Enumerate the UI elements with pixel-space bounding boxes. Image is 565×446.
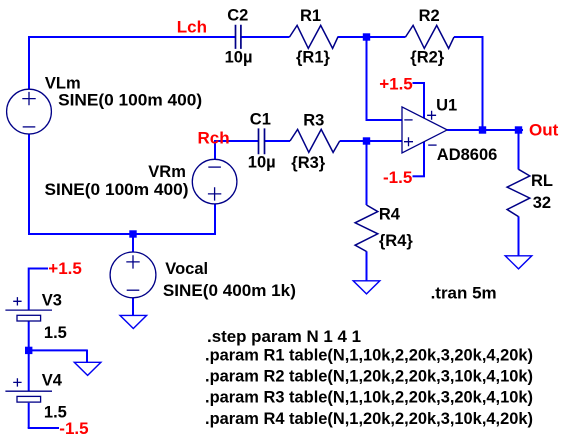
- svg-text:.tran 5m: .tran 5m: [431, 285, 497, 303]
- svg-text:R1: R1: [300, 7, 321, 25]
- svg-text:10µ: 10µ: [248, 154, 276, 172]
- svg-text:+1.5: +1.5: [48, 259, 82, 278]
- svg-text:-1.5: -1.5: [383, 168, 412, 187]
- node V3/V4 midpoint: [25, 347, 32, 354]
- wire R4 to ground: [366, 251, 368, 280]
- svg-text:Lch: Lch: [177, 18, 207, 37]
- resistor RL: [507, 169, 530, 216]
- svg-text:SINE(0 100m 400): SINE(0 100m 400): [58, 92, 202, 110]
- capacitor C2: [236, 25, 241, 49]
- op-amp noninverting input mark: [404, 137, 413, 146]
- battery V4 symbol: [5, 378, 52, 402]
- svg-text:.step param N 1 4 1: .step param N 1 4 1: [207, 328, 361, 346]
- svg-text:{R4}: {R4}: [379, 232, 414, 250]
- ground battery midpoint: [74, 362, 101, 375]
- svg-text:SINE(0 400m 1k): SINE(0 400m 1k): [163, 282, 296, 300]
- wire Out node down to RL: [518, 130, 520, 170]
- wire +1.5 battery flag link: [29, 268, 48, 270]
- wire RL to ground: [518, 216, 520, 255]
- wire R1 to R2 through node A: [338, 36, 406, 38]
- svg-text:R4: R4: [379, 205, 401, 223]
- op-amp inverting input mark: [404, 119, 412, 121]
- op-amp V+ mark: [427, 111, 436, 120]
- voltage source Vocal: [110, 252, 156, 298]
- wire Vocal top stub: [132, 234, 134, 252]
- svg-text:1.5: 1.5: [44, 324, 67, 342]
- wire C1 to R3: [265, 140, 291, 142]
- wire V4 top pin: [28, 350, 30, 391]
- wire Rch rail (VRm to C1): [214, 140, 259, 142]
- svg-text:V3: V3: [42, 291, 62, 309]
- svg-text:{R2}: {R2}: [410, 49, 445, 67]
- wire R2 to feedback corner: [454, 36, 483, 38]
- svg-text:RL: RL: [531, 172, 553, 190]
- wire VRm bottom stub: [214, 204, 216, 235]
- resistor R4: [355, 205, 378, 252]
- wire V4 bottom pin: [28, 403, 30, 428]
- svg-text:Out: Out: [529, 121, 559, 140]
- svg-text:AD8606: AD8606: [437, 146, 498, 164]
- wire op-amp V- pin: [423, 142, 425, 177]
- wire feedback vertical to output: [482, 36, 484, 130]
- wire VLm bottom vertical: [28, 134, 30, 234]
- svg-text:{R3}: {R3}: [291, 154, 326, 172]
- wire +1.5 flag link: [413, 82, 426, 84]
- ground below Vocal: [120, 315, 147, 328]
- resistor R1: [290, 25, 338, 48]
- svg-text:10µ: 10µ: [225, 48, 253, 66]
- svg-text:R3: R3: [303, 112, 324, 130]
- svg-text:C1: C1: [250, 111, 271, 129]
- node C (feedback/output): [479, 126, 486, 133]
- node Out: [515, 126, 522, 133]
- wire ground stub: [86, 350, 88, 363]
- node A (R1/R2/inverting): [363, 33, 370, 40]
- wire V3 top pin: [28, 268, 30, 311]
- node Vocal tap: [129, 230, 136, 237]
- wire -1.5 battery flag link: [28, 427, 59, 429]
- wire Vocal bottom stub: [132, 298, 134, 316]
- svg-text:32: 32: [533, 194, 551, 212]
- svg-text:-1.5: -1.5: [59, 419, 88, 438]
- svg-text:U1: U1: [436, 97, 457, 115]
- wire bottom return rail: [28, 233, 215, 235]
- resistor R3: [290, 129, 340, 152]
- wire node A down to inverting input: [366, 36, 368, 120]
- svg-text:C2: C2: [227, 7, 248, 25]
- wire -1.5 flag link: [413, 175, 426, 177]
- svg-text:Rch: Rch: [198, 129, 230, 148]
- wire op-amp V+ pin: [423, 83, 425, 118]
- node B (R3/R4/noninverting): [363, 137, 370, 144]
- wire VLm top stub: [28, 36, 30, 90]
- svg-text:.param R4 table(N,1,20k,2,20k,: .param R4 table(N,1,20k,2,20k,3,10k,4,20…: [205, 410, 533, 428]
- svg-text:SINE(0 100m 400): SINE(0 100m 400): [45, 181, 189, 199]
- svg-text:VRm: VRm: [148, 163, 186, 181]
- svg-text:.param R1 table(N,1,10k,2,20k,: .param R1 table(N,1,10k,2,20k,3,20k,4,20…: [205, 346, 533, 364]
- svg-text:VLm: VLm: [45, 74, 81, 92]
- ground below RL: [505, 256, 532, 269]
- svg-text:{R1}: {R1}: [296, 49, 331, 67]
- resistor R2: [406, 25, 455, 48]
- svg-text:.param R3 table(N,1,10k,2,20k,: .param R3 table(N,1,10k,2,20k,3,20k,4,10…: [205, 388, 533, 406]
- wire top rail left (VLm to C2): [29, 36, 236, 38]
- ground below R4: [353, 281, 380, 294]
- voltage source VLm: [7, 89, 52, 134]
- svg-text:R2: R2: [419, 7, 440, 25]
- op-amp U1: [402, 107, 447, 153]
- voltage source VRm: [192, 159, 237, 204]
- wire R3 to op-amp noninverting input: [340, 140, 402, 142]
- svg-text:+1.5: +1.5: [379, 74, 413, 93]
- svg-text:V4: V4: [42, 371, 63, 389]
- wire VRm top stub: [214, 141, 216, 160]
- wire to op-amp inverting input: [366, 119, 403, 121]
- battery V3 symbol: [5, 297, 52, 321]
- svg-text:Vocal: Vocal: [165, 260, 208, 278]
- wire C2 to R1: [241, 36, 290, 38]
- op-amp V- mark: [428, 144, 436, 146]
- wire node B down to R4: [366, 141, 368, 205]
- svg-text:.param R2 table(N,1,20k,2,20k,: .param R2 table(N,1,20k,2,20k,3,10k,4,10…: [205, 367, 533, 385]
- wire V3 bottom pin: [28, 321, 30, 351]
- capacitor C1: [259, 128, 265, 154]
- wire mid rail to ground: [29, 349, 87, 351]
- wire op-amp output to Out node: [447, 129, 523, 131]
